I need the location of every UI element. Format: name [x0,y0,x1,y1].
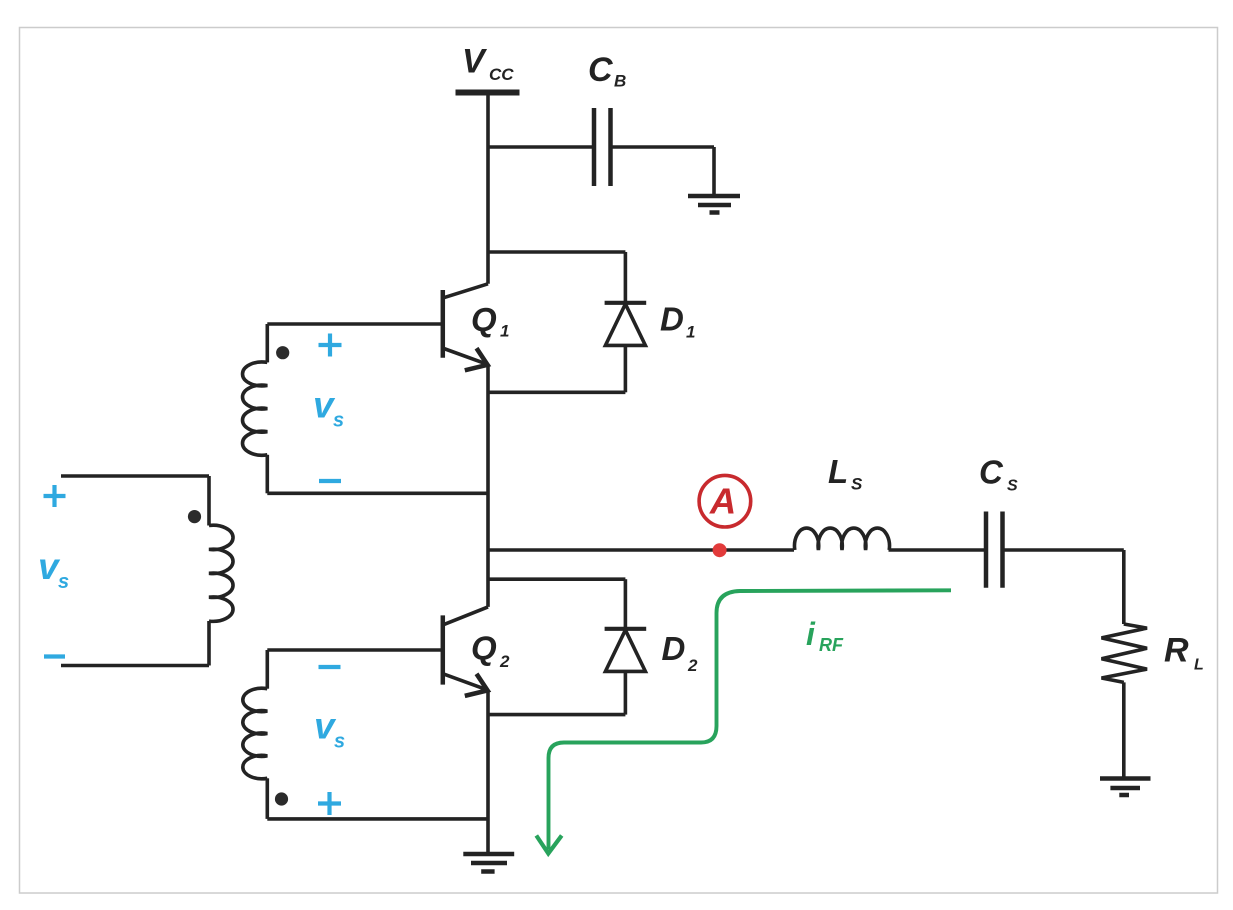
svg-text:R: R [1164,632,1189,670]
svg-text:D: D [660,301,684,338]
svg-text:RF: RF [819,635,844,655]
svg-text:B: B [614,72,626,91]
svg-text:1: 1 [500,322,509,341]
svg-text:C: C [979,454,1004,491]
svg-text:1: 1 [686,323,695,342]
svg-text:C: C [588,51,613,89]
svg-text:L: L [1194,657,1204,674]
svg-text:S: S [1007,478,1018,495]
svg-text:s: s [334,731,345,753]
svg-text:s: s [333,410,344,432]
svg-text:Q: Q [471,301,497,338]
svg-text:s: s [58,571,69,593]
svg-text:2: 2 [499,652,510,671]
svg-text:S: S [851,475,863,494]
svg-text:D: D [662,630,686,667]
svg-text:V: V [462,43,488,81]
svg-text:i: i [806,616,816,652]
svg-text:L: L [828,453,848,490]
svg-text:CC: CC [489,65,514,84]
svg-text:2: 2 [687,656,698,675]
svg-text:A: A [709,481,736,522]
svg-text:Q: Q [471,630,497,667]
